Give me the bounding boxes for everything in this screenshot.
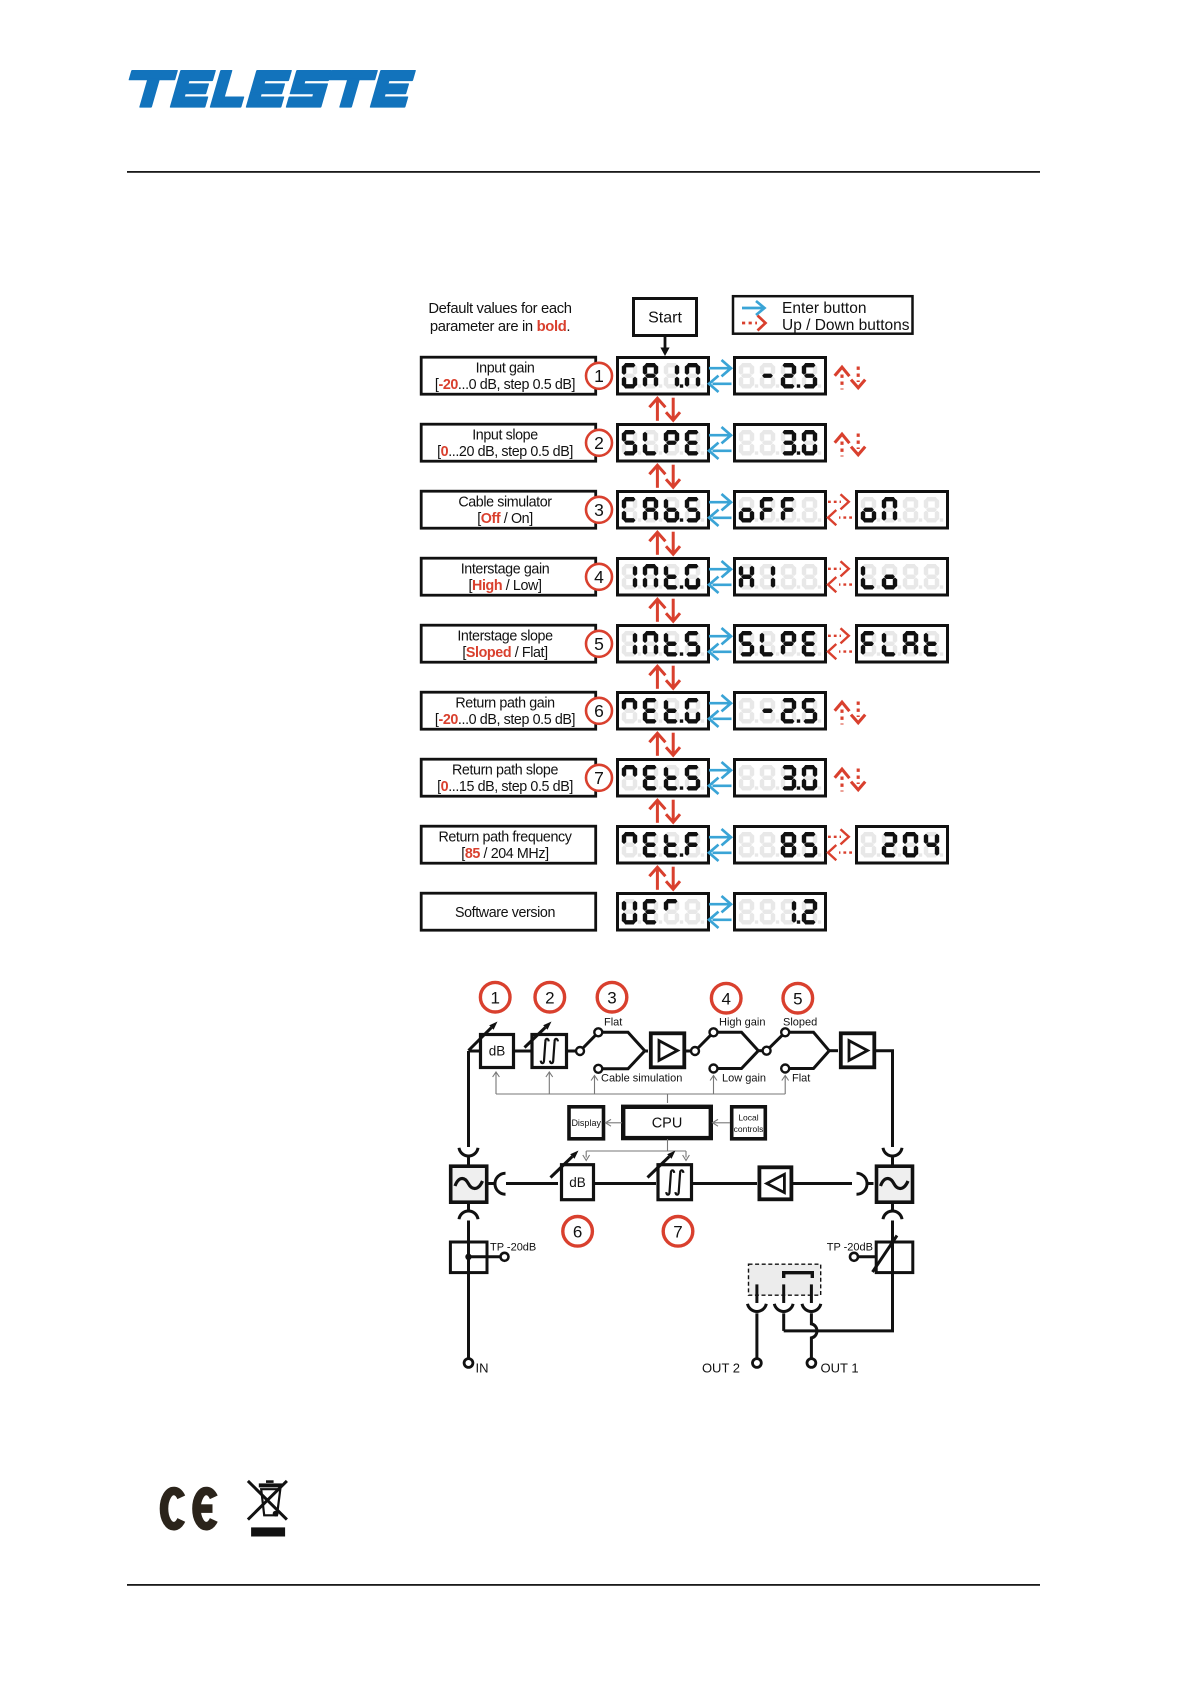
menu up/down arrows between rows 1-2	[649, 398, 680, 421]
menu display: Software version	[618, 894, 709, 931]
note: default values	[428, 301, 571, 335]
svg-text:3: 3	[607, 988, 616, 1007]
menu display: Input gain	[618, 358, 709, 395]
menu display: Interstage slope	[618, 626, 709, 663]
svg-text:Cable simulation: Cable simulation	[601, 1073, 682, 1085]
display unit	[569, 1107, 604, 1139]
wire middle port to output diplexer line	[782, 1313, 785, 1331]
control line local controls to CPU	[713, 1119, 731, 1126]
svg-text:6: 6	[594, 701, 604, 721]
up/down arrows row 6	[835, 702, 866, 725]
svg-text:[0...20 dB, step 0.5 dB]: [0...20 dB, step 0.5 dB]	[437, 444, 573, 460]
test point TP -20dB (input)	[450, 1240, 536, 1273]
node 5 (red numbered circle)	[783, 983, 813, 1013]
value display 1 row 5	[735, 626, 826, 663]
svg-text:Default values for each: Default values for each	[428, 301, 571, 317]
directional coupler bar	[784, 1273, 813, 1278]
svg-text:[0...15 dB, step 0.5 dB]: [0...15 dB, step 0.5 dB]	[437, 779, 573, 795]
wire return amplifier to output diplexer	[792, 1182, 853, 1185]
output splitter (dashed module)	[749, 1264, 821, 1295]
svg-text:[Sloped / Flat]: [Sloped / Flat]	[462, 645, 547, 661]
svg-text:Cable simulator: Cable simulator	[458, 495, 552, 511]
svg-text:5: 5	[594, 634, 604, 654]
switch 5 (interstage slope select)	[763, 1028, 838, 1072]
return amplifier (reverse)	[759, 1167, 791, 1199]
svg-text:[-20...0 dB, step 0.5 dB]: [-20...0 dB, step 0.5 dB]	[435, 377, 575, 393]
attenuator 6 (return path gain)	[551, 1151, 594, 1200]
equalizer 7 (return path slope)	[648, 1151, 692, 1200]
wire equalizer 2 to switch 3	[568, 1050, 576, 1053]
control bus from CPU to forward components	[493, 1072, 789, 1103]
wire equalizer 7 to return amplifier	[692, 1182, 758, 1185]
svg-text:Up / Down buttons: Up / Down buttons	[782, 317, 910, 334]
wire amplifier A2 to output diplexer	[875, 1051, 893, 1147]
CPU	[623, 1107, 711, 1138]
svg-text:Return path gain: Return path gain	[455, 696, 555, 712]
attenuator 1 (dB box, input gain)	[469, 1022, 514, 1068]
svg-text:OUT 1: OUT 1	[821, 1361, 859, 1376]
svg-text:Display: Display	[571, 1118, 601, 1128]
menu up/down arrows between rows 8-9	[649, 867, 680, 890]
svg-text:[-20...0 dB, step 0.5 dB]: [-20...0 dB, step 0.5 dB]	[435, 712, 575, 728]
WEEE crossed-out bin mark	[248, 1480, 287, 1536]
value display 2 row 4	[857, 559, 948, 596]
svg-text:[85 / 204 MHz]: [85 / 204 MHz]	[461, 846, 548, 862]
connector below input diplexer	[459, 1202, 478, 1240]
enter arrows row 8	[709, 829, 732, 861]
up/down toggle arrows row 5	[828, 628, 852, 659]
menu up/down arrows between rows 2-3	[649, 465, 680, 488]
menu display: Return path slope	[618, 760, 709, 797]
svg-text:Enter button: Enter button	[782, 300, 866, 317]
wire input down from attenuator 1	[467, 1051, 470, 1147]
svg-text:2: 2	[594, 433, 604, 453]
svg-text:Input slope: Input slope	[472, 428, 538, 444]
wire attenuator 6 to equalizer 7	[594, 1182, 657, 1185]
svg-text:Start: Start	[648, 310, 682, 327]
label box: Return path frequency	[421, 826, 596, 863]
enter arrows row 3	[709, 494, 732, 526]
svg-text:parameter are in bold.: parameter are in bold.	[430, 319, 570, 335]
connector input diplexer to return attenuator	[487, 1173, 559, 1194]
svg-text:Return path slope: Return path slope	[452, 763, 559, 779]
svg-text:2: 2	[545, 988, 554, 1007]
svg-text:7: 7	[673, 1223, 682, 1242]
label box: Return path gain	[421, 692, 596, 729]
svg-text:dB: dB	[569, 1175, 586, 1190]
label box: Interstage gain	[421, 558, 596, 595]
number circle 3	[586, 497, 612, 523]
value display 2 row 3	[857, 492, 948, 529]
enter arrows row 1	[709, 360, 732, 392]
svg-text:[High / Low]: [High / Low]	[468, 578, 541, 594]
value display 1 row 8	[735, 827, 826, 864]
enter arrows row 9	[709, 896, 732, 928]
up/down toggle arrows row 4	[828, 561, 852, 592]
connector middle port	[774, 1304, 793, 1312]
svg-text:[Off / On]: [Off / On]	[477, 511, 533, 527]
svg-text:High gain: High gain	[719, 1017, 765, 1029]
number circle 2	[586, 430, 612, 456]
menu display: Cable simulator	[618, 492, 709, 529]
label box: Return path slope	[421, 759, 596, 796]
label box: Cable simulator	[421, 491, 596, 528]
svg-text:Sloped: Sloped	[783, 1017, 817, 1029]
test point TP -20dB (output)	[827, 1236, 913, 1273]
number circle 7	[586, 765, 612, 791]
value display 1 row 1	[735, 358, 826, 395]
amplifier A1 (forward amp 1)	[651, 1033, 685, 1067]
value display 1 row 9	[735, 894, 826, 931]
svg-text:controls: controls	[734, 1124, 764, 1134]
wire attenuator 1 to equalizer 2	[515, 1050, 531, 1053]
label box: Interstage slope	[421, 625, 596, 662]
output diplexer filter	[877, 1166, 913, 1202]
IN terminal	[464, 1359, 488, 1376]
svg-text:Local: Local	[738, 1113, 758, 1123]
up/down toggle arrows row 3	[828, 494, 852, 525]
svg-text:6: 6	[573, 1223, 582, 1242]
svg-text:CPU: CPU	[652, 1115, 683, 1131]
svg-text:dB: dB	[489, 1044, 506, 1059]
start box	[634, 299, 697, 336]
OUT 2 terminal	[702, 1359, 761, 1376]
label box: Input slope	[421, 424, 596, 461]
up/down arrows row 7	[835, 769, 866, 792]
menu up/down arrows between rows 4-5	[649, 599, 680, 622]
svg-text:4: 4	[594, 567, 604, 587]
svg-text:IN: IN	[476, 1361, 489, 1376]
svg-text:1: 1	[594, 366, 604, 386]
wire to OUT 2	[755, 1313, 758, 1358]
svg-text:Software version: Software version	[455, 905, 556, 921]
connector return amplifier to output diplexer	[857, 1173, 874, 1194]
menu display: Return path frequency	[618, 827, 709, 864]
svg-text:Low gain: Low gain	[722, 1073, 766, 1085]
svg-text:5: 5	[793, 989, 802, 1008]
label box: Input gain	[421, 357, 596, 394]
connector above output diplexer	[883, 1148, 902, 1165]
value display 1 row 7	[735, 760, 826, 797]
node 1 (red numbered circle)	[480, 982, 510, 1012]
value display 1 row 3	[735, 492, 826, 529]
value display 1 row 2	[735, 425, 826, 462]
svg-text:4: 4	[721, 989, 730, 1008]
up/down toggle arrows row 8	[828, 829, 852, 860]
header rule	[127, 171, 1040, 173]
CE mark	[164, 1491, 214, 1526]
menu display: Interstage gain	[618, 559, 709, 596]
number circle 4	[586, 564, 612, 590]
menu display: Input slope	[618, 425, 709, 462]
number circle 1	[586, 363, 612, 389]
svg-text:Interstage slope: Interstage slope	[457, 629, 553, 645]
wire to OUT 1 (hops over)	[811, 1313, 817, 1358]
svg-text:OUT 2: OUT 2	[702, 1361, 740, 1376]
local controls unit	[732, 1107, 766, 1139]
value display 2 row 8	[857, 827, 948, 864]
arrow start to row1	[660, 337, 669, 356]
menu up/down arrows between rows 3-4	[649, 532, 680, 555]
menu up/down arrows between rows 5-6	[649, 666, 680, 689]
legend box	[733, 296, 913, 334]
wire test point to IN	[467, 1272, 470, 1359]
label box: Software version	[421, 893, 596, 930]
enter arrows row 6	[709, 695, 732, 727]
menu up/down arrows between rows 7-8	[649, 800, 680, 823]
svg-text:Flat: Flat	[604, 1017, 622, 1029]
connector below output diplexer	[883, 1202, 902, 1240]
wire amplifier A1 to switch 4	[685, 1050, 692, 1053]
connector OUT 2 port	[748, 1304, 767, 1312]
switch 3 (cable simulator select)	[576, 1028, 648, 1073]
svg-text:7: 7	[594, 768, 604, 788]
switch 4 (interstage gain select)	[691, 1028, 762, 1072]
enter arrows row 5	[709, 628, 732, 660]
OUT 1 terminal	[807, 1359, 859, 1376]
svg-text:TP -20dB: TP -20dB	[490, 1242, 536, 1254]
splitter port stubs	[757, 1284, 812, 1303]
node 3 (red numbered circle)	[597, 982, 627, 1012]
number circle 6	[586, 698, 612, 724]
node 4 (red numbered circle)	[711, 983, 741, 1013]
svg-text:1: 1	[490, 988, 499, 1007]
svg-text:3: 3	[594, 500, 604, 520]
wire input to attenuator 1	[469, 1050, 480, 1053]
value display 1 row 6	[735, 693, 826, 730]
value display 2 row 5	[857, 626, 948, 663]
node 6 (red numbered circle)	[563, 1217, 593, 1247]
up/down arrows row 1	[835, 367, 866, 390]
control bus from CPU to return components	[583, 1139, 690, 1161]
connector above input diplexer	[459, 1148, 478, 1165]
svg-text:Input gain: Input gain	[476, 361, 535, 377]
enter arrows row 2	[709, 427, 732, 459]
wire output diplexer down and to splitter	[784, 1272, 893, 1331]
up/down arrows row 2	[835, 434, 866, 457]
svg-text:Return path frequency: Return path frequency	[438, 830, 572, 846]
Teleste logo	[122, 71, 415, 107]
enter arrows row 7	[709, 762, 732, 794]
menu display: Return path gain	[618, 693, 709, 730]
svg-text:TP -20dB: TP -20dB	[827, 1242, 873, 1254]
equalizer 2 (input slope)	[525, 1022, 567, 1068]
number circle 5	[586, 631, 612, 657]
menu up/down arrows between rows 6-7	[649, 733, 680, 756]
enter arrows row 4	[709, 561, 732, 593]
control line CPU to display	[606, 1119, 623, 1126]
svg-text:Flat: Flat	[792, 1073, 810, 1085]
value display 1 row 4	[735, 559, 826, 596]
node 7 (red numbered circle)	[663, 1217, 693, 1247]
connector OUT 1 port	[802, 1304, 821, 1312]
svg-text:Interstage gain: Interstage gain	[461, 562, 550, 578]
node 2 (red numbered circle)	[535, 982, 565, 1012]
amplifier A2 (forward amp 2)	[841, 1033, 875, 1067]
input diplexer filter	[451, 1166, 487, 1202]
footer rule	[127, 1584, 1040, 1586]
